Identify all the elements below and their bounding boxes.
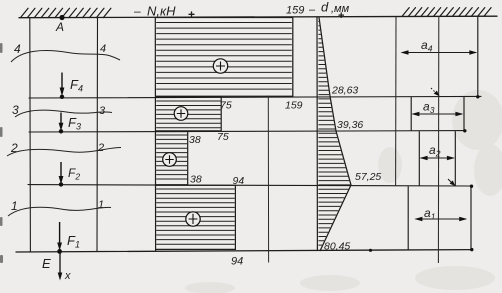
bar centerline <box>437 17 439 264</box>
stepped bar section 2 outline <box>419 131 455 186</box>
N diagram section 3 (75 kN) <box>156 97 222 131</box>
svg-text:80,45: 80,45 <box>324 241 350 253</box>
svg-text:3: 3 <box>12 103 19 117</box>
svg-text:159: 159 <box>285 100 303 112</box>
corner blobs <box>470 185 473 188</box>
N diagram section 2 (3.8 kN) <box>156 132 188 185</box>
section mark 4-4 <box>11 42 120 62</box>
svg-text:d: d <box>321 0 329 15</box>
svg-text:2: 2 <box>97 142 104 154</box>
N diagram section 4 (159 kN) <box>156 18 293 97</box>
leader arrow at centerline <box>431 88 438 95</box>
dimension a4 <box>401 38 478 55</box>
bar right edge <box>96 18 99 251</box>
svg-text:1: 1 <box>11 199 18 213</box>
wall hatching right <box>402 8 491 17</box>
section boundary line 2-2 level (y=131) <box>29 131 466 132</box>
dimension a2 <box>420 143 455 160</box>
svg-text:75: 75 <box>217 131 229 143</box>
top wall line <box>19 16 497 18</box>
svg-text:39,36: 39,36 <box>337 119 363 131</box>
displacement diagram shape <box>318 17 351 251</box>
x axis arrow <box>58 254 71 283</box>
N diagram axis <box>154 18 156 252</box>
N diagram section 1 (94 kN) <box>156 185 236 249</box>
N diagram axis label "- N,kH +" <box>134 4 195 22</box>
displacement diagram axis label "159 - d,mm +" <box>286 0 350 22</box>
svg-text:x: x <box>64 270 71 282</box>
force F4 <box>60 73 83 100</box>
displacement diagram axis <box>316 17 318 251</box>
svg-text:94: 94 <box>231 256 243 268</box>
svg-text:38: 38 <box>190 174 202 186</box>
section mark 1-1 <box>8 199 111 216</box>
section mark 2-2 <box>7 141 121 156</box>
support point A <box>59 15 64 20</box>
stepped bar section 3 outline <box>411 97 464 131</box>
svg-text:28,63: 28,63 <box>331 85 358 97</box>
svg-text:N,кН: N,кН <box>147 4 176 19</box>
force F2 <box>59 162 81 187</box>
section mark 3-3 <box>12 103 112 117</box>
svg-text:+: + <box>188 8 195 22</box>
svg-text:4: 4 <box>100 43 106 55</box>
wall hatching left <box>21 8 111 17</box>
separator vertical line <box>267 96 269 263</box>
svg-text:38: 38 <box>189 134 201 146</box>
force F1 <box>57 222 80 254</box>
construction vertical line <box>395 17 397 186</box>
dimension a3 <box>411 100 463 117</box>
svg-text:4: 4 <box>14 42 21 56</box>
svg-text:+: + <box>338 10 344 22</box>
svg-text:A: A <box>55 20 64 34</box>
dimension a1 <box>414 206 467 222</box>
section boundary line 3-3 level (y=97) <box>29 96 481 98</box>
svg-text:3: 3 <box>99 105 106 117</box>
bar left edge <box>29 18 32 252</box>
svg-text:159: 159 <box>286 5 304 17</box>
svg-text:–: – <box>309 4 316 16</box>
svg-text:2: 2 <box>10 141 18 155</box>
stepped bar section 1 outline <box>408 186 471 250</box>
svg-text:E: E <box>42 256 51 271</box>
tick on bottom line <box>369 249 372 252</box>
section boundary line 1-1 level (y=185) <box>28 185 472 186</box>
svg-text:–: – <box>134 4 141 18</box>
svg-text:1: 1 <box>98 199 104 211</box>
svg-text:57,25: 57,25 <box>355 171 381 183</box>
force F3 <box>59 113 81 134</box>
bottom line (free end E) <box>16 250 472 252</box>
stepped bar section 4 outline <box>477 17 479 97</box>
